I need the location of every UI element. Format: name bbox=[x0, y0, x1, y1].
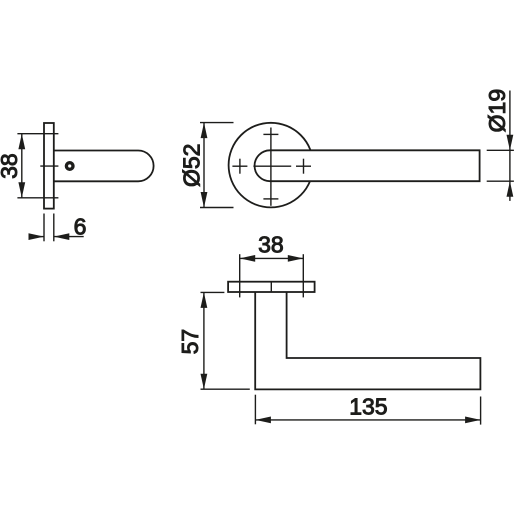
svg-text:135: 135 bbox=[349, 394, 387, 420]
svg-text:38: 38 bbox=[0, 153, 22, 179]
svg-text:38: 38 bbox=[258, 231, 284, 257]
svg-text:Ø19: Ø19 bbox=[484, 89, 510, 132]
svg-text:57: 57 bbox=[177, 329, 203, 355]
svg-text:Ø52: Ø52 bbox=[179, 144, 205, 187]
svg-text:6: 6 bbox=[74, 214, 87, 240]
